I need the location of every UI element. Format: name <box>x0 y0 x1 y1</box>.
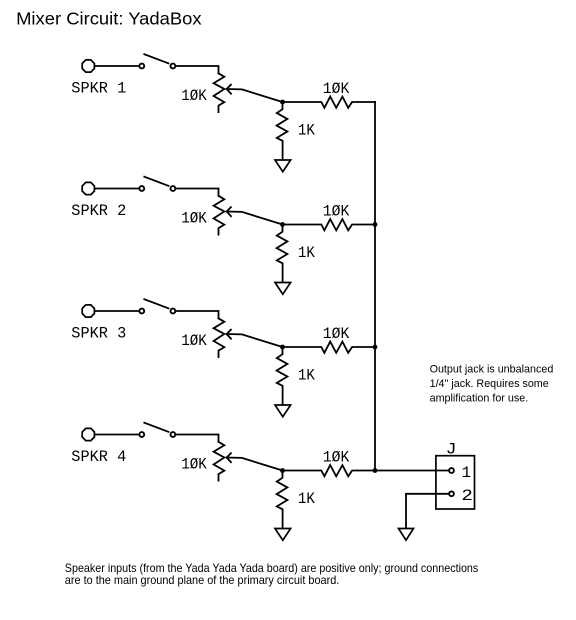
wire: bus to jack pin 1 <box>375 470 449 472</box>
wiper arrowhead (channel 3) <box>227 330 231 339</box>
resistor 10K series (channel 4) <box>283 465 376 476</box>
resistor 10K series (channel 2) <box>283 219 376 230</box>
svg-text:2: 2 <box>461 487 473 505</box>
svg-text:1K: 1K <box>298 366 315 384</box>
junction dot on output bus (channel 2) <box>373 222 378 227</box>
wire: input terminal to switch (channel 2) <box>95 188 139 190</box>
node: channel 1 mix junction dot <box>280 100 285 105</box>
svg-text:1ØK: 1ØK <box>323 449 350 467</box>
potentiometer wiper arrow (channel 1) <box>227 89 283 102</box>
ground symbol (channel 4) <box>275 529 291 541</box>
resistor 1K to ground (channel 3) <box>277 347 288 405</box>
potentiometer wiper arrow (channel 3) <box>227 334 283 347</box>
resistor 10K series (channel 3) <box>283 342 376 353</box>
svg-text:SPKR 1: SPKR 1 <box>71 79 126 97</box>
input terminal circle SPKR 2 <box>82 182 94 194</box>
svg-text:SPKR 3: SPKR 3 <box>71 324 126 342</box>
annotation note (output jack) <box>430 364 554 405</box>
switch S2 left contact <box>139 186 144 191</box>
wire: input terminal to switch (channel 3) <box>95 310 139 312</box>
junction dot on output bus (channel 4) <box>373 468 378 473</box>
svg-text:are to the main ground plane o: are to the main ground plane of the prim… <box>65 574 340 587</box>
svg-text:1ØK: 1ØK <box>181 210 207 228</box>
potentiometer wiper arrow (channel 2) <box>227 212 283 225</box>
svg-text:1K: 1K <box>298 490 315 508</box>
switch S2 lever arm <box>144 177 168 186</box>
ground symbol (channel 1) <box>275 160 291 172</box>
svg-text:SPKR 4: SPKR 4 <box>71 448 126 466</box>
svg-text:J: J <box>446 440 457 458</box>
ground symbol (channel 3) <box>275 405 291 417</box>
connector J outline <box>436 456 475 509</box>
switch S3 left contact <box>139 309 144 314</box>
wire: switch to potentiometer top (channel 4) <box>176 435 219 442</box>
pin 1 contact circle <box>449 468 454 473</box>
input terminal circle SPKR 3 <box>82 305 94 317</box>
input terminal circle SPKR 1 <box>82 60 94 72</box>
junction dot on output bus (channel 3) <box>373 345 378 350</box>
wire: switch to potentiometer top (channel 1) <box>176 66 219 73</box>
svg-text:1ØK: 1ØK <box>181 332 207 350</box>
node: channel 2 mix junction dot <box>280 222 285 227</box>
potentiometer 10K body (channel 2) <box>214 196 225 235</box>
svg-text:1/4" jack. Requires some: 1/4" jack. Requires some <box>430 378 549 390</box>
wiper arrowhead (channel 1) <box>227 85 231 94</box>
wiper arrowhead (channel 2) <box>227 207 231 216</box>
wire: pin 2 to ground <box>406 494 449 529</box>
switch S4 left contact <box>139 432 144 437</box>
svg-text:1ØK: 1ØK <box>323 325 350 343</box>
switch S1 right contact <box>171 64 176 69</box>
switch S3 lever arm <box>144 299 168 308</box>
node: channel 4 mix junction dot <box>280 468 285 473</box>
wire: output bus (vertical) <box>374 102 376 471</box>
resistor 1K to ground (channel 1) <box>277 102 288 160</box>
potentiometer 10K body (channel 4) <box>214 442 225 481</box>
svg-text:1ØK: 1ØK <box>323 80 350 98</box>
svg-text:Mixer Circuit: YadaBox: Mixer Circuit: YadaBox <box>16 9 202 29</box>
potentiometer 10K body (channel 3) <box>214 318 225 357</box>
input terminal circle SPKR 4 <box>82 428 94 440</box>
resistor 1K to ground (channel 2) <box>277 225 288 283</box>
wire: switch to potentiometer top (channel 3) <box>176 311 219 318</box>
switch S2 right contact <box>171 186 176 191</box>
potentiometer wiper arrow (channel 4) <box>227 458 283 471</box>
wire: switch to potentiometer top (channel 2) <box>176 189 219 196</box>
switch S4 right contact <box>171 432 176 437</box>
switch S1 left contact <box>139 64 144 69</box>
resistor 10K series (channel 1) <box>283 97 376 108</box>
svg-text:1: 1 <box>462 464 472 482</box>
wire: input terminal to switch (channel 1) <box>95 65 139 67</box>
svg-text:1ØK: 1ØK <box>323 203 350 221</box>
switch S3 right contact <box>171 309 176 314</box>
svg-text:amplification for use.: amplification for use. <box>430 392 529 404</box>
ground symbol (output jack) <box>399 529 414 541</box>
switch S4 lever arm <box>144 423 168 432</box>
svg-text:1ØK: 1ØK <box>181 87 207 105</box>
ground symbol (channel 2) <box>275 283 291 295</box>
svg-text:1K: 1K <box>298 244 315 262</box>
pin 2 contact circle <box>449 491 454 496</box>
switch S1 lever arm <box>144 54 168 63</box>
wire: input terminal to switch (channel 4) <box>95 434 139 436</box>
svg-text:1K: 1K <box>298 121 315 139</box>
svg-text:Output jack is unbalanced: Output jack is unbalanced <box>430 364 554 376</box>
caption text (bottom) <box>65 562 479 587</box>
wiper arrowhead (channel 4) <box>227 453 231 462</box>
svg-text:1ØK: 1ØK <box>181 456 207 474</box>
node: channel 3 mix junction dot <box>280 345 285 350</box>
svg-text:SPKR 2: SPKR 2 <box>71 202 126 220</box>
potentiometer 10K body (channel 1) <box>214 73 225 112</box>
resistor 1K to ground (channel 4) <box>277 471 288 529</box>
